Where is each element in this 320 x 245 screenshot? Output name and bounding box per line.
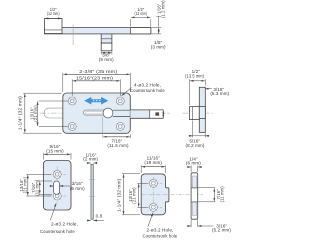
strike plate hole bottom [53, 192, 61, 200]
svg-text:15/16"(23 mm): 15/16"(23 mm) [76, 76, 113, 81]
dimension 9/16in 15mm (strike plate width) [43, 144, 71, 160]
dimension 2-3/8in 35mm (plate width) [63, 69, 131, 92]
dimension 1-1/4in 32mm (keeper height, rotated) [117, 174, 140, 215]
strike plate side view (thin strip) [89, 164, 95, 219]
centre mark on side view [72, 25, 74, 46]
svg-text:Countersunk hole: Countersunk hole [130, 88, 165, 93]
slide direction arrow (blue) [84, 97, 108, 105]
svg-text:(5.2 mm): (5.2 mm) [212, 227, 231, 232]
svg-text:(6 mm): (6 mm) [186, 160, 201, 165]
front plate (blue) [63, 93, 131, 133]
label 2-dia3.2 hole countersunk (keeper) [143, 213, 178, 239]
dimension 1/8in 3mm (plate thickness) [151, 28, 166, 50]
svg-text:(21 mm): (21 mm) [23, 177, 28, 194]
label 0.8 with width arrows [87, 214, 104, 221]
svg-text:(11 mm): (11 mm) [34, 179, 39, 196]
svg-text:(2 mm): (2 mm) [83, 157, 98, 162]
svg-text:(3 mm): (3 mm) [151, 44, 166, 49]
dimension 1/2in 13.5mm (side view depth) [185, 69, 205, 105]
knob in side view (white block) [45, 19, 63, 34]
label 4-dia3.2 hole countersunk [122, 82, 166, 96]
svg-text:0.8: 0.8 [96, 214, 103, 219]
side view plate strip (blue) [199, 87, 205, 132]
svg-text:(12 mm): (12 mm) [47, 11, 60, 16]
svg-text:(8.2 mm): (8.2 mm) [186, 143, 205, 148]
side view bolt barrel section [199, 106, 205, 118]
dimension 7/16in 11mm (slot length, rotated) [31, 179, 52, 196]
knob circle [103, 108, 113, 118]
screw hole bottom-right [116, 123, 124, 131]
bolt side view - main bar (plate edge-on) [45, 28, 151, 34]
dimension 1/2in 12mm right (bolt throw) [131, 7, 151, 27]
svg-text:(11 mm): (11 mm) [220, 186, 225, 203]
screw hole top-left [68, 97, 76, 105]
side view knob block [190, 107, 200, 120]
svg-text:1-1/4" (32 mm): 1-1/4" (32 mm) [117, 178, 122, 211]
side view centreline [183, 112, 215, 114]
svg-text:(9 mm): (9 mm) [99, 57, 114, 62]
front view centreline [40, 112, 170, 114]
dimension 1/16in 2mm (strike thickness) [83, 152, 98, 163]
label 2-dia3.2 hole countersunk (strike) [40, 203, 78, 234]
strike plate hole centrelines [49, 167, 67, 204]
svg-text:1-1/4" (32 mm): 1-1/4" (32 mm) [17, 96, 22, 130]
dimension 3/8in 9mm (tab width) [99, 52, 114, 63]
dimension 7/16in 11mm (keeper tab height, rotated) [198, 186, 225, 203]
dimension 13/16in 21mm (keeper holes, rotated) [128, 183, 148, 207]
strike plate centre slot [54, 181, 60, 194]
screw hole bottom-left [68, 123, 76, 131]
svg-text:(5.3 mm): (5.3 mm) [210, 91, 229, 96]
svg-text:2-3/8" (35 mm): 2-3/8" (35 mm) [79, 69, 117, 74]
keeper hole bottom [149, 203, 157, 211]
keeper hole top [149, 179, 157, 187]
dimension 5/16in 8.2mm (bottom of side view) [186, 121, 210, 148]
svg-text:Countersunk hole: Countersunk hole [40, 229, 75, 234]
dimension 1/2in 12mm left (knob width) [45, 7, 62, 18]
phantom outline of retracted bolt (grey) [44, 108, 86, 118]
dimension 3/16in 5mm (slot width) [49, 181, 85, 191]
svg-text:(13.5 mm): (13.5 mm) [185, 74, 204, 79]
tab below bar (side view of knob stem) [101, 34, 112, 51]
dimension 15/16in 23mm (hole spacing) [72, 76, 120, 96]
screw hole top-right [116, 97, 124, 105]
dimension 13/16in 21mm (strike holes, rotated) [19, 174, 51, 196]
svg-text:(18 mm): (18 mm) [144, 160, 162, 165]
svg-text:(12 mm): (12 mm) [135, 11, 148, 16]
svg-text:2-ø3.2 Hole,: 2-ø3.2 Hole, [51, 221, 78, 226]
svg-text:(21 mm): (21 mm) [132, 187, 137, 204]
svg-text:2-ø3.2 Hole,: 2-ø3.2 Hole, [147, 228, 174, 233]
svg-text:(21 mm): (21 mm) [33, 105, 38, 122]
strike plate (blue) [43, 161, 71, 211]
keeper hole centrelines [141, 177, 203, 214]
keeper plate (blue, with side tab) [141, 174, 169, 215]
slot in front plate [84, 110, 109, 115]
label 3/16in 5.2mm (strip width at bottom) [187, 219, 231, 232]
bolt tip height arrows [162, 110, 164, 117]
dimension 1/16in 1.2mm (vertical, rotated) [156, 0, 165, 27]
svg-text:4-ø3.2 Hole,: 4-ø3.2 Hole, [134, 82, 161, 87]
dimension 13/16in 21mm (hole spacing vertical, rotated) [30, 101, 69, 127]
dimension 11/16in 18mm (keeper width) [141, 155, 165, 173]
bolt bar in front view [113, 110, 163, 118]
svg-text:(11.5 mm): (11.5 mm) [107, 143, 129, 148]
dimension 3/16in 5.3mm (bolt thickness) with arrow [205, 87, 229, 96]
dimension 1/4in 6mm (keeper thickness) [186, 157, 202, 172]
svg-text:(1.2 mm): (1.2 mm) [161, 0, 166, 18]
svg-text:Countersunk hole: Countersunk hole [143, 234, 178, 239]
svg-text:(15 mm): (15 mm) [46, 148, 64, 153]
strike plate hole top [53, 170, 61, 178]
detent notch in bolt tip (dark) [155, 112, 159, 115]
svg-text:(5 mm): (5 mm) [70, 186, 85, 191]
dimension 1-1/4in 32mm (plate height, rotated) [17, 93, 61, 133]
dimension 7/16in 11.5mm (bolt guide to edge) [103, 117, 131, 148]
keeper side view strip [191, 173, 198, 219]
